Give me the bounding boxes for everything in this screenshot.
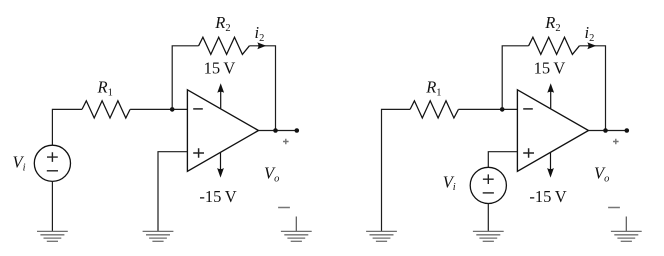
svg-text:Vi: Vi (443, 172, 456, 193)
voltage source Vi plus sign (47, 152, 58, 162)
svg-text:R2: R2 (214, 13, 230, 34)
wire from R2 to output node corner (right) (579, 46, 605, 131)
negative supply arrow (right) (547, 153, 554, 178)
op-amp non-inverting input plus sign (right) (523, 148, 534, 158)
svg-text:R2: R2 (544, 13, 560, 34)
ground under Vi (right) (473, 231, 504, 241)
node: output junction dot (273, 128, 278, 133)
wire from R1 to inverting input (130, 108, 187, 110)
wire from op-amp output to terminal (259, 130, 297, 132)
wire from non-inverting input to ground (158, 152, 187, 232)
svg-text:15 V: 15 V (204, 58, 236, 77)
label minus at output (278, 207, 290, 209)
ground under non-inverting input (143, 231, 174, 241)
current arrow i2 (right) (587, 42, 596, 49)
op-amp U1 triangle (187, 90, 258, 172)
op-amp inverting input minus sign (193, 108, 203, 110)
wire from R2 to output node corner (249, 46, 275, 131)
wire from Vi bottom to ground (right) (487, 204, 489, 232)
wire from Vi bottom to ground (51, 181, 53, 231)
wire feedback tap from inverting node up to R2 (172, 46, 198, 110)
negative supply arrow (217, 153, 224, 178)
reference ground at output (right) (611, 217, 642, 242)
voltage source Vi (34, 145, 70, 181)
svg-text:-15 V: -15 V (529, 187, 566, 206)
wire from R1 to inverting input (right) (458, 108, 517, 110)
wire from left ground riser to R1 left lead (382, 109, 411, 231)
voltage source Vi minus sign (right) (483, 192, 494, 194)
positive supply arrow (217, 83, 224, 108)
wire from Vi top to R1 left lead (52, 109, 82, 145)
node: output terminal dot (right) (625, 128, 630, 133)
current arrow i2 (257, 42, 266, 49)
svg-text:R1: R1 (425, 78, 441, 99)
wire feedback tap from inverting node up to R2 (right) (502, 46, 528, 110)
voltage source Vi plus sign (right) (483, 174, 494, 184)
op-amp inverting input minus sign (right) (523, 108, 533, 110)
wire from op-amp output to terminal (right) (589, 130, 627, 132)
node: output junction dot (right) (603, 128, 608, 133)
label minus at output (right) (608, 207, 620, 209)
reference ground at output (281, 217, 312, 242)
resistor R2 (right) (529, 37, 580, 54)
ground under left riser (366, 231, 397, 241)
label + at output terminal (right) (613, 139, 619, 145)
node: inverting input junction (170, 107, 175, 112)
resistor R1 (82, 101, 130, 118)
wire from non-inverting input to Vi top (right) (488, 152, 517, 168)
svg-text:-15 V: -15 V (199, 187, 236, 206)
op-amp U2 triangle (517, 90, 588, 172)
op-amp non-inverting input plus sign (193, 148, 204, 158)
svg-text:Vo: Vo (264, 164, 279, 185)
positive supply arrow (right) (547, 83, 554, 108)
label + at output terminal (283, 139, 289, 145)
node: output terminal dot (295, 128, 300, 133)
svg-text:15 V: 15 V (534, 58, 566, 77)
voltage source Vi minus sign (47, 170, 58, 172)
svg-text:Vo: Vo (594, 164, 609, 185)
svg-text:i2: i2 (585, 23, 595, 44)
ground under Vi (37, 231, 68, 241)
svg-text:R1: R1 (97, 78, 113, 99)
svg-text:Vi: Vi (13, 153, 26, 174)
svg-text:i2: i2 (255, 23, 265, 44)
resistor R2 (199, 37, 250, 54)
voltage source Vi (right) (470, 167, 506, 203)
resistor R1 (right) (410, 101, 458, 118)
node: inverting input junction (right) (500, 107, 505, 112)
